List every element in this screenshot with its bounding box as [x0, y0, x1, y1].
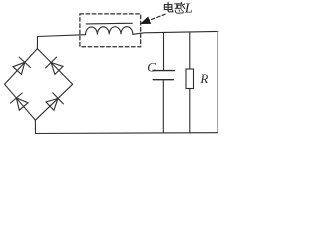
wire: horizontal from bridge to inductor — [38, 35, 86, 37]
diode D4 lower-right (points to right vertex) — [46, 93, 63, 110]
capacitor C top lead — [163, 32, 165, 70]
wire: right vertical edge — [217, 32, 219, 133]
svg-text:L: L — [184, 1, 193, 16]
resistor R top lead — [189, 32, 191, 69]
wire: arm top-left — [5, 49, 38, 85]
wire: bridge top vertex stub up — [36, 37, 38, 49]
wire: bottom bus — [36, 132, 218, 135]
diode D3 lower-left (points to left vertex) — [11, 93, 29, 110]
label 电 (dian) drawn strokes — [164, 2, 173, 12]
wire: arm bottom-left — [5, 84, 36, 120]
svg-text:C: C — [147, 59, 156, 74]
diode D1 upper-left (points to top vertex) — [13, 57, 31, 74]
annotation arrow head — [142, 18, 151, 24]
inductor core line — [86, 22, 132, 25]
wire: arm top-right — [37, 49, 72, 85]
capacitor C bottom lead — [162, 80, 164, 133]
label 感 (gan) drawn strokes — [175, 2, 185, 13]
svg-text:R: R — [199, 71, 208, 86]
wire: bridge bottom vertex stub down — [34, 120, 36, 133]
dashed box around inductor — [80, 14, 141, 47]
wire: inductor output to top-right — [133, 31, 218, 34]
wire: arm bottom-right — [35, 84, 72, 120]
diode D2 upper-right (points to top vertex) — [46, 57, 63, 74]
resistor R body — [186, 69, 194, 89]
inductor L coil — [86, 27, 133, 35]
bridge rectifier diamond — [5, 49, 73, 121]
annotation arrow shaft (dashed) — [149, 14, 165, 20]
resistor R bottom lead — [189, 89, 191, 133]
capacitor C plates — [153, 70, 174, 72]
